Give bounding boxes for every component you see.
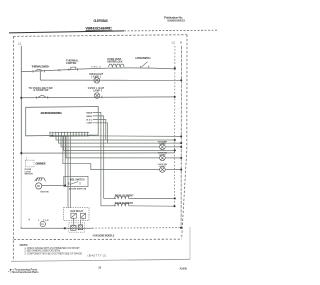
rung 1 wire bbox=[21, 68, 175, 72]
lamp B oven light 2 bbox=[94, 93, 100, 99]
connector terminal strip EOC bottom bbox=[50, 132, 90, 137]
wire bottom rung dashed bbox=[92, 227, 181, 229]
wire EOC stub 2 bbox=[93, 116, 104, 199]
svg-text:A1005: A1005 bbox=[180, 267, 188, 271]
lamp C3 indicator bbox=[160, 167, 166, 173]
dashed border top bbox=[13, 35, 187, 37]
svg-text:NOTE:: NOTE: bbox=[20, 243, 29, 247]
svg-text:N: N bbox=[180, 41, 182, 45]
coil 2 bbox=[78, 225, 82, 230]
coil 1 bbox=[71, 225, 76, 230]
MDL switch box bbox=[64, 176, 88, 186]
svg-text:LATCH SWITCH: LATCH SWITCH bbox=[135, 57, 150, 60]
svg-text:M: M bbox=[37, 184, 39, 188]
wire bottom rung solid bbox=[21, 227, 92, 228]
svg-text:DLB RELAY: DLB RELAY bbox=[70, 210, 83, 213]
svg-text:(B45777-2): (B45777-2) bbox=[88, 253, 107, 257]
junction dot EOC bottom bbox=[51, 135, 53, 137]
switch S1 thermal limiter bbox=[33, 69, 45, 72]
dashed border bottom bbox=[14, 238, 182, 240]
svg-text:5995508423: 5995508423 bbox=[167, 19, 185, 23]
rung 2 wire bbox=[40, 79, 181, 81]
wire harness h2 bbox=[56, 136, 175, 140]
svg-text:HEATER LOCK: HEATER LOCK bbox=[107, 61, 122, 64]
wire harness to lamp C3 bbox=[63, 136, 160, 169]
switch S4 oven light switch bbox=[36, 96, 48, 99]
relay coil enclosure dashed bbox=[69, 223, 85, 232]
junction dot rung3/L1 bbox=[20, 97, 22, 99]
wire EOC stub 4 bbox=[93, 123, 108, 143]
switch S2 hi-limit bbox=[69, 67, 78, 71]
junction dot rung3/L2 bbox=[174, 96, 176, 98]
DLB relay box bbox=[64, 208, 90, 221]
junction dot motor wire bbox=[64, 184, 66, 186]
TOD thermal device bbox=[40, 221, 45, 226]
svg-text:4 ON SOME MODELS: 4 ON SOME MODELS bbox=[93, 235, 115, 238]
svg-text:LIMITER: LIMITER bbox=[66, 61, 77, 65]
wire harness h3 bbox=[59, 136, 182, 143]
svg-text:WIRING SCHEMATIC: WIRING SCHEMATIC bbox=[86, 26, 113, 31]
wire motor to MDL box bbox=[42, 184, 66, 186]
dashed border left bbox=[12, 36, 14, 260]
junction dot rung1/L2 bbox=[174, 67, 176, 69]
switch S3 relay contact bbox=[141, 62, 149, 68]
dashed border right bbox=[182, 35, 187, 240]
svg-text:THERMAL SWITCH: THERMAL SWITCH bbox=[32, 64, 50, 68]
door lock cam bbox=[35, 178, 46, 181]
svg-text:MOTOR: MOTOR bbox=[41, 192, 50, 194]
svg-text:TO EOC L1: TO EOC L1 bbox=[91, 66, 102, 68]
wire DLB feed 1 bbox=[67, 136, 69, 207]
svg-text:LIGHT: LIGHT bbox=[159, 155, 166, 157]
svg-text:LAMP 1: LAMP 1 bbox=[91, 76, 102, 79]
wire L1 bus bbox=[20, 46, 22, 155]
lamp C1 indicator bbox=[160, 144, 166, 150]
wire EOC stub 3 bbox=[93, 119, 106, 140]
outer bottom border bbox=[11, 259, 190, 261]
wire N bus bbox=[180, 46, 182, 228]
svg-text:4: 4 bbox=[28, 218, 30, 221]
svg-text:LAMP 2: LAMP 2 bbox=[93, 89, 103, 92]
wire L2 bus bbox=[174, 46, 176, 207]
lamp C2 indicator bbox=[160, 155, 166, 161]
svg-text:BAKE: BAKE bbox=[87, 111, 93, 114]
svg-text:(DOOR SWITCH): (DOOR SWITCH) bbox=[69, 189, 87, 191]
svg-text:LIGHT: LIGHT bbox=[159, 166, 166, 168]
outer right border (faint) bbox=[189, 227, 191, 259]
switch blade inside MDL bbox=[69, 182, 80, 185]
op box: electronic oven control EOC bbox=[26, 107, 99, 136]
wire DLB feed 2 bbox=[69, 136, 71, 207]
svg-text:MOTOR: MOTOR bbox=[25, 174, 34, 176]
svg-text:ELECTRONIC OVEN CONTROL: ELECTRONIC OVEN CONTROL bbox=[41, 111, 63, 115]
svg-text:2. SEE OWNERS GUIDE FOR DETAI: 2. SEE OWNERS GUIDE FOR DETAIL bbox=[24, 249, 61, 252]
svg-text:13: 13 bbox=[98, 266, 101, 270]
wire rung L1 mid bbox=[21, 152, 175, 154]
wire harness drop to motor junction bbox=[64, 136, 66, 185]
svg-text:L2: L2 bbox=[172, 41, 176, 45]
terminal tick on rung3 bbox=[101, 96, 103, 98]
relay contact 2 bbox=[80, 213, 85, 220]
resistor Z1 oven vent heater zigzag bbox=[109, 64, 125, 67]
wire branch rung1 to rung2 bbox=[39, 71, 41, 80]
wire EOC stub 1 bbox=[93, 112, 101, 205]
motor M door lock bbox=[36, 183, 42, 189]
header rule dashed bbox=[124, 29, 217, 32]
svg-text:TO: TO bbox=[41, 224, 44, 226]
svg-text:MDL SWITCH: MDL SWITCH bbox=[70, 180, 85, 182]
oven sensor box bbox=[25, 160, 34, 167]
svg-text:& DOOR SW: & DOOR SW bbox=[33, 89, 49, 92]
svg-text:3. COMPONENT MAY BE ON EITHER: 3. COMPONENT MAY BE ON EITHER SIDE OF RA… bbox=[24, 253, 82, 256]
svg-text:L1: L1 bbox=[18, 41, 22, 45]
svg-text:GLEF378AS: GLEF378AS bbox=[93, 19, 108, 23]
svg-text:LIGHT: LIGHT bbox=[159, 144, 166, 146]
junction dot rung2/N bbox=[180, 79, 182, 81]
relay contact 1 bbox=[71, 213, 76, 220]
wire harness to lamp C2 bbox=[66, 136, 160, 158]
lamp A oven light bbox=[94, 77, 100, 83]
svg-text:* = Non-Functional Parts: * = Non-Functional Parts bbox=[8, 270, 39, 274]
svg-text:*: * bbox=[38, 219, 40, 223]
svg-text:OVEN SENSOR: OVEN SENSOR bbox=[36, 164, 46, 166]
wire harness h1 bbox=[87, 135, 181, 138]
svg-text:BROIL: BROIL bbox=[87, 116, 94, 118]
wire harness h5 bbox=[64, 136, 175, 150]
svg-text:CONV: CONV bbox=[87, 123, 93, 125]
header rule solid bbox=[9, 31, 124, 33]
wire harness h4 to lamp C1 bbox=[61, 136, 160, 147]
rung 3 wire bbox=[21, 96, 174, 99]
svg-text:MDL: MDL bbox=[87, 119, 94, 121]
